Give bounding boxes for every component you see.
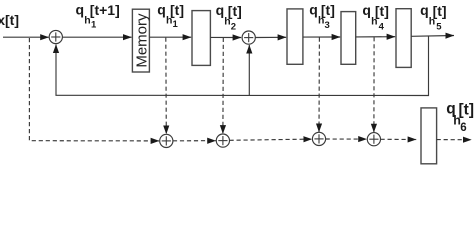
wire Memory to block H1 bbox=[149, 36, 191, 38]
svg-text:Memory: Memory bbox=[133, 13, 150, 68]
block H2 bbox=[287, 9, 303, 64]
svg-text:3: 3 bbox=[325, 20, 330, 31]
wire block H4 to output qh5 bbox=[411, 35, 454, 38]
adder S1 bbox=[49, 30, 62, 43]
svg-text:q: q bbox=[420, 2, 429, 18]
dashed wire tap qh2 down to adder A2 bbox=[222, 38, 224, 134]
svg-text:q: q bbox=[216, 2, 225, 18]
svg-text:5: 5 bbox=[436, 21, 442, 32]
adder A2 bbox=[216, 134, 229, 147]
svg-text:[t]: [t] bbox=[170, 2, 184, 18]
dashed wire tap qh1 down to adder A1 bbox=[165, 38, 168, 134]
svg-text:[t]: [t] bbox=[375, 3, 389, 19]
svg-text:[t+1]: [t+1] bbox=[90, 2, 120, 18]
svg-text:2: 2 bbox=[231, 21, 236, 32]
label qh1[t] bbox=[157, 1, 184, 30]
label qh2[t] bbox=[216, 2, 242, 32]
svg-text:q: q bbox=[157, 1, 166, 17]
dashed wire adder A4 to block H6 bbox=[381, 138, 417, 140]
svg-text:1: 1 bbox=[173, 19, 179, 30]
svg-text:[t]: [t] bbox=[459, 101, 474, 118]
svg-text:q: q bbox=[76, 1, 85, 17]
dashed wire tap qh4 down to adder A4 bbox=[373, 37, 375, 132]
dashed wire tap from input down and right to adder A1 bbox=[29, 38, 159, 141]
svg-text:1: 1 bbox=[91, 19, 97, 30]
label qh6[t] bbox=[446, 101, 474, 134]
svg-text:q: q bbox=[362, 2, 371, 18]
adder A1 bbox=[160, 134, 173, 147]
svg-text:4: 4 bbox=[379, 21, 385, 32]
dashed wire tap qh3 down to adder A3 bbox=[318, 38, 320, 133]
wire block H1 to adder S2 bbox=[210, 36, 241, 38]
wire block H2 to block H3 bbox=[303, 36, 340, 38]
dashed wire adder A2 to adder A3 bbox=[230, 139, 312, 140]
memory block M1 bbox=[132, 9, 150, 72]
feedback wire from qh5 line down and back to adder S1 bbox=[56, 36, 429, 96]
svg-text:[t]: [t] bbox=[433, 3, 447, 19]
svg-text:[t]: [t] bbox=[321, 2, 335, 18]
dashed output wire qh6[t] bbox=[437, 139, 472, 141]
feedback branch wire up into adder S2 bbox=[248, 45, 250, 96]
label qh3[t] bbox=[309, 1, 335, 31]
label qh4[t] bbox=[362, 2, 389, 32]
block H4 bbox=[396, 9, 411, 68]
svg-text:6: 6 bbox=[460, 122, 466, 134]
wire block H3 to block H4 bbox=[356, 36, 396, 38]
wire adder S1 to Memory bbox=[62, 36, 131, 38]
label qh5[t] bbox=[420, 2, 447, 32]
block H3 bbox=[341, 12, 356, 65]
adder S2 bbox=[242, 31, 255, 44]
wire adder S2 to block H2 bbox=[255, 36, 286, 38]
block H6 bbox=[421, 108, 437, 164]
svg-text:[t]: [t] bbox=[228, 3, 242, 19]
block H1 bbox=[192, 11, 210, 66]
adder A3 bbox=[312, 132, 325, 145]
label qh1[t+1] bbox=[76, 1, 120, 30]
svg-text:x[t]: x[t] bbox=[0, 12, 19, 28]
dashed wire adder A3 to adder A4 bbox=[326, 138, 367, 140]
adder A4 bbox=[367, 133, 380, 146]
dashed wire adder A1 to adder A2 bbox=[173, 140, 216, 142]
wire input x[t] to adder S1 bbox=[3, 36, 49, 38]
svg-text:q: q bbox=[309, 1, 318, 17]
